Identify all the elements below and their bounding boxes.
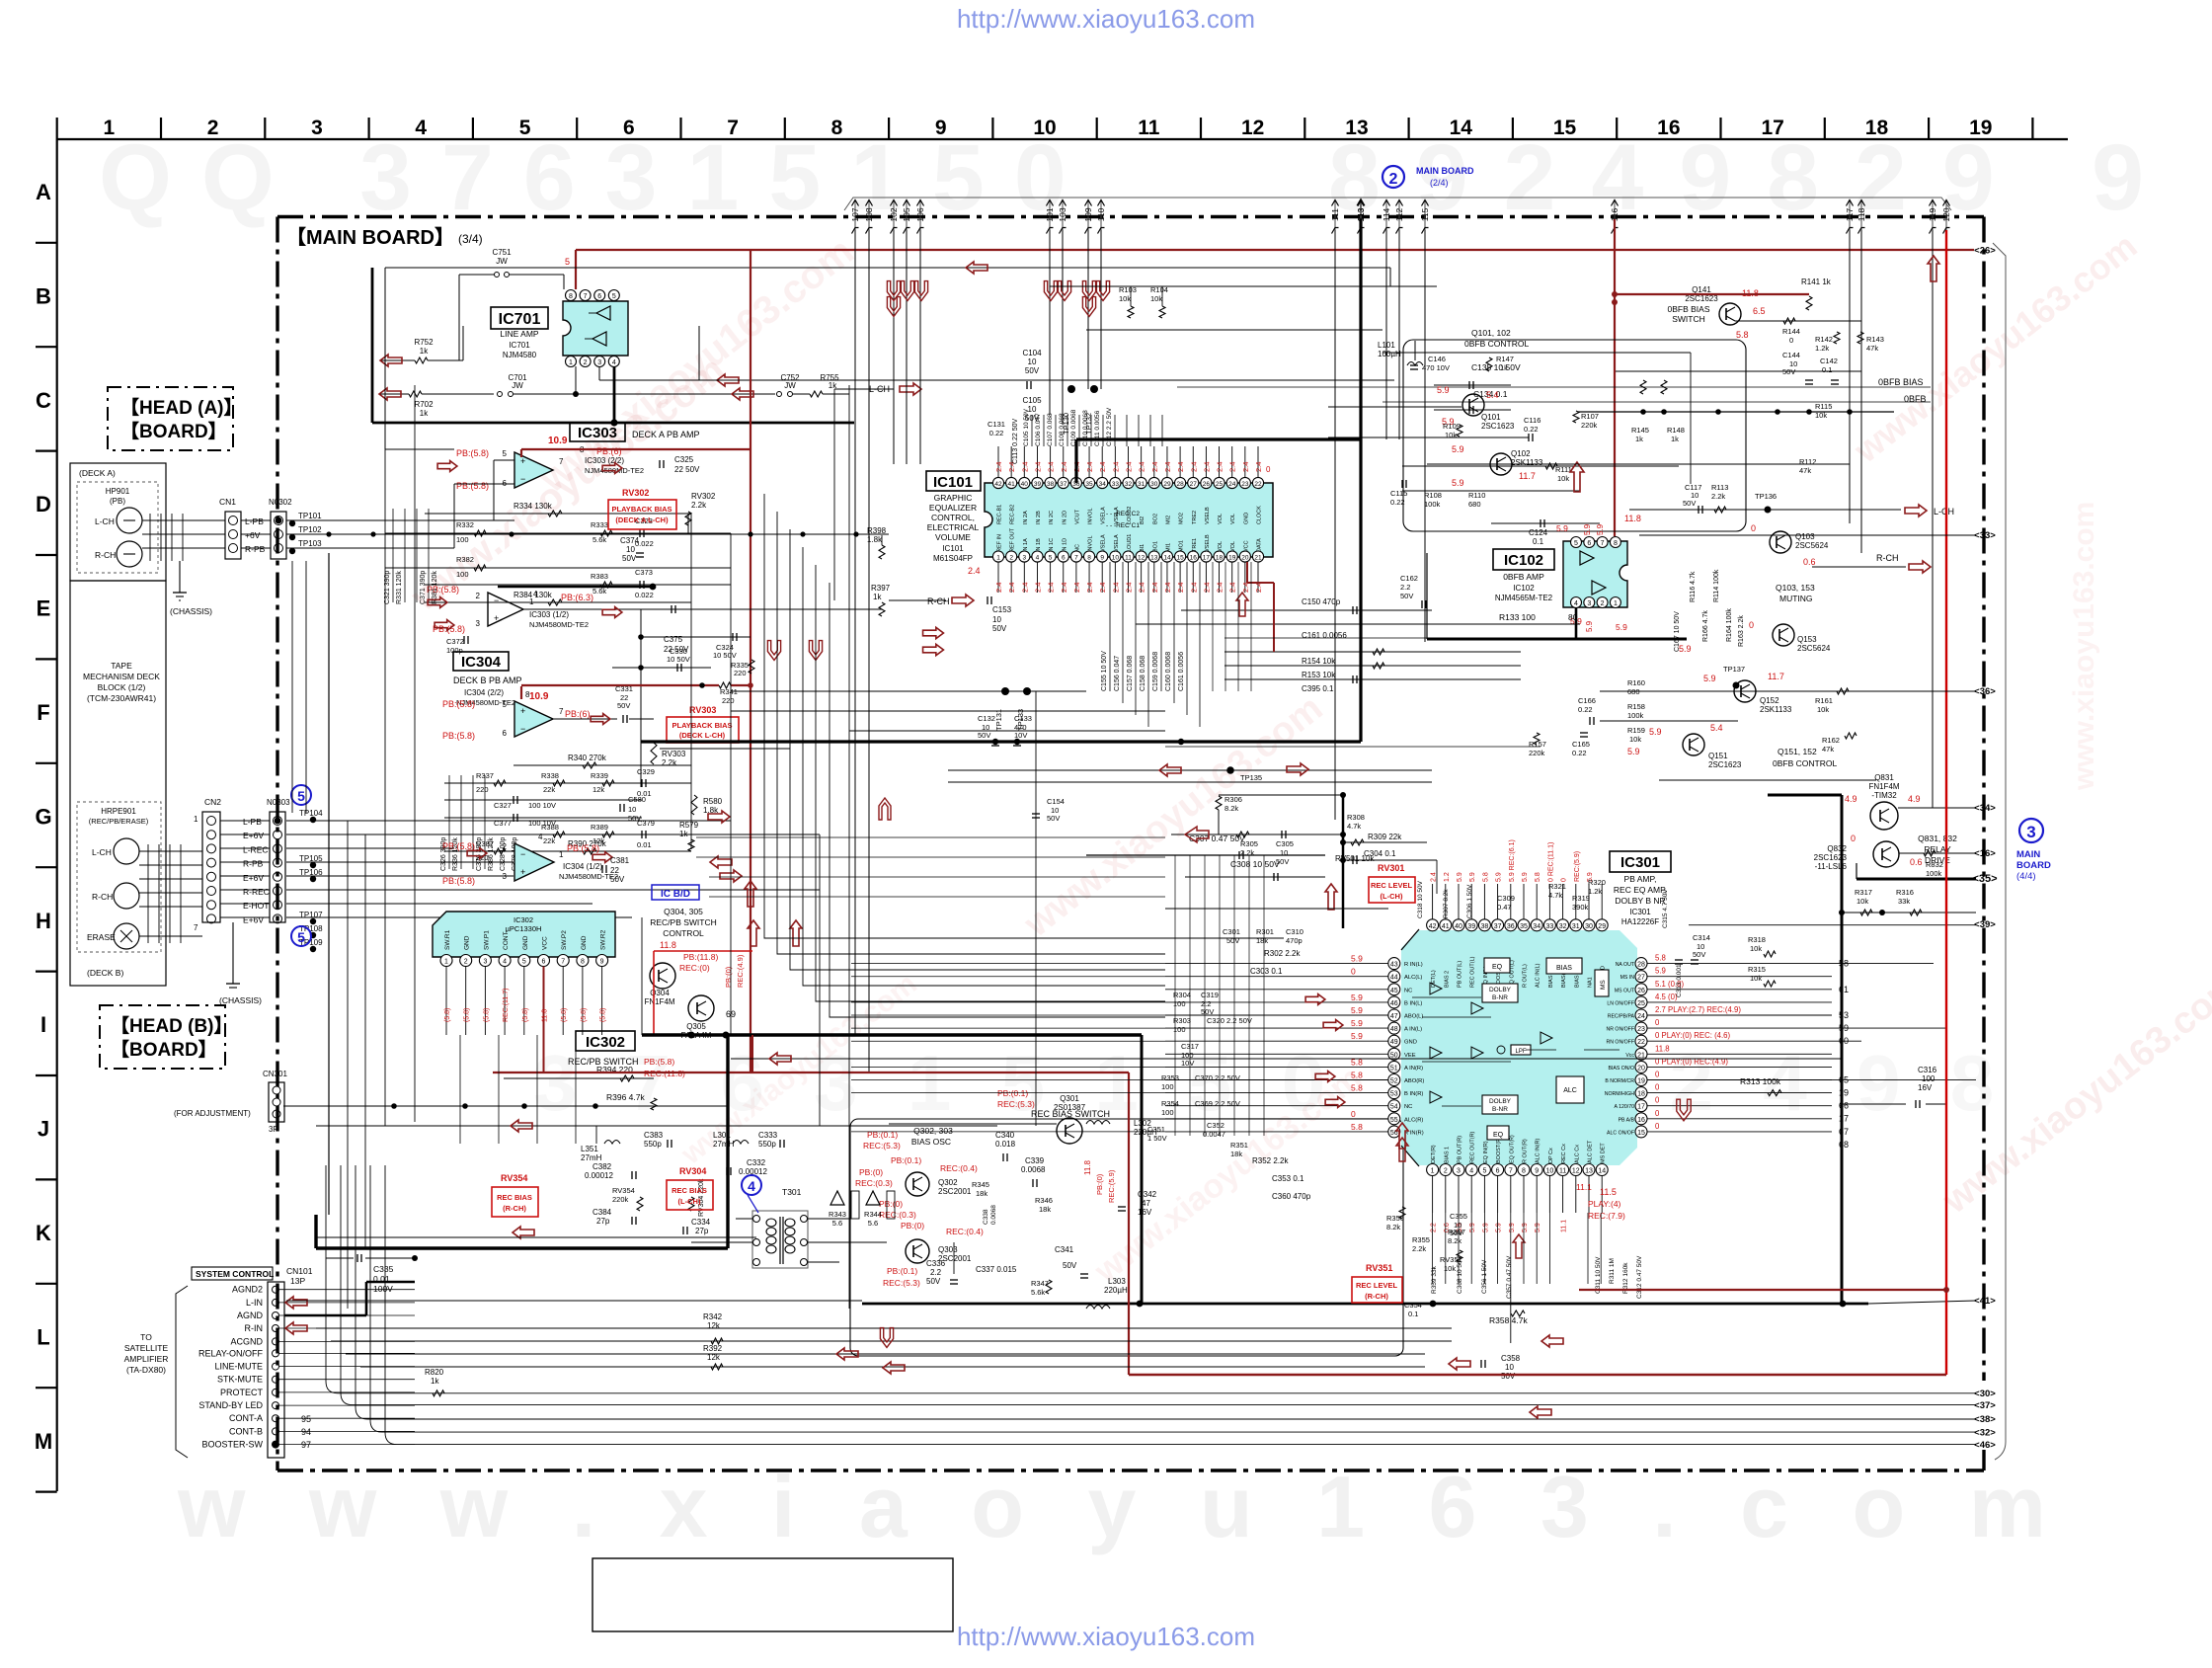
svg-text:220µH: 220µH <box>1104 1286 1128 1295</box>
svg-text:6: 6 <box>542 959 546 966</box>
svg-text:5: 5 <box>297 788 305 804</box>
svg-text:−: − <box>520 724 525 734</box>
svg-text:L-IN: L-IN <box>246 1298 263 1308</box>
svg-text:10k: 10k <box>1119 294 1131 303</box>
svg-text:1k: 1k <box>1500 363 1508 372</box>
svg-text:3: 3 <box>597 359 601 366</box>
svg-text:B: B <box>36 283 51 308</box>
svg-text:0 REC:(11.1): 0 REC:(11.1) <box>1547 842 1554 882</box>
IC301 inner BIAS box <box>1546 958 1582 974</box>
svg-text:A: A <box>36 180 51 204</box>
svg-text:1k: 1k <box>420 347 429 356</box>
svg-text:R341: R341 <box>720 687 738 696</box>
capacitor C372 <box>463 636 465 644</box>
svg-text:<30>: <30> <box>1974 1389 1996 1399</box>
svg-text:0.6: 0.6 <box>1910 857 1923 867</box>
svg-text:CONTROL: CONTROL <box>663 928 704 938</box>
svg-text:10: 10 <box>626 545 635 554</box>
IC301 inner wiring sketch <box>1412 996 1481 998</box>
svg-text:11.8: 11.8 <box>1624 514 1641 523</box>
svg-text:5.9: 5.9 <box>1496 1223 1503 1232</box>
svg-text:17: 17 <box>1637 1104 1645 1111</box>
svg-text:MS OUT: MS OUT <box>1615 988 1635 993</box>
svg-text:PB:(0.1): PB:(0.1) <box>997 1088 1028 1098</box>
svg-text:C115: C115 <box>1390 489 1407 498</box>
svg-text:IC701: IC701 <box>509 341 530 350</box>
svg-text:R-CH: R-CH <box>92 892 113 902</box>
svg-text:6.5: 6.5 <box>1753 306 1766 316</box>
IC701 pins top <box>566 290 577 301</box>
wire to connector 36 <box>1659 690 1976 692</box>
svg-text:10k: 10k <box>1629 735 1641 744</box>
svg-text:470 10V: 470 10V <box>1422 363 1450 372</box>
wire vertical 708 <box>698 326 700 380</box>
svg-text:118: 118 <box>1856 207 1866 221</box>
wire IC304 out to C331 <box>553 718 617 720</box>
svg-text:20: 20 <box>1241 555 1249 562</box>
svg-text:RV304: RV304 <box>679 1166 706 1176</box>
long rails to edge connectors <box>326 1165 1976 1393</box>
svg-text:6: 6 <box>1496 1168 1500 1175</box>
svg-text:0.022: 0.022 <box>635 591 654 599</box>
svg-text:<39>: <39> <box>1974 919 1996 930</box>
svg-text:REC-B1: REC-B1 <box>997 505 1003 524</box>
svg-text:100: 100 <box>456 535 469 544</box>
red wire vertical 1143 <box>1128 1072 1130 1375</box>
wires IC302 comb extensions <box>459 1035 461 1144</box>
svg-text:PB OUT(R): PB OUT(R) <box>1458 1136 1463 1163</box>
svg-text:3: 3 <box>311 117 323 139</box>
right connector bracket line <box>1993 243 2006 1442</box>
svg-text:18: 18 <box>1216 555 1224 562</box>
svg-text:R318: R318 <box>1748 935 1766 944</box>
svg-text:35: 35 <box>1520 923 1528 930</box>
svg-text:119: 119 <box>1928 207 1937 221</box>
long vertical wires center <box>641 917 643 1035</box>
svg-text:CONT-B: CONT-B <box>229 1426 263 1436</box>
svg-text:C372: C372 <box>446 637 464 646</box>
svg-text:C395 0.1: C395 0.1 <box>1302 684 1334 693</box>
svg-text:PB:(0): PB:(0) <box>901 1221 924 1231</box>
svg-text:RV351: RV351 <box>1366 1263 1392 1273</box>
svg-text:C340: C340 <box>995 1131 1015 1140</box>
svg-text:R145: R145 <box>1631 426 1649 435</box>
svg-text:ALC: ALC <box>1563 1087 1577 1094</box>
svg-text:5: 5 <box>503 700 508 709</box>
svg-text:50V: 50V <box>622 554 637 563</box>
svg-text:C107 0.068: C107 0.068 <box>1047 413 1054 446</box>
svg-text:C358: C358 <box>1501 1354 1521 1363</box>
svg-text:Vcc: Vcc <box>1625 1053 1634 1059</box>
svg-text:2.4: 2.4 <box>1228 583 1237 593</box>
IC101 bottom pin wires comb <box>997 562 999 593</box>
svg-text:C161 0.0056: C161 0.0056 <box>1178 652 1185 691</box>
IC IC102 label box <box>1493 549 1554 570</box>
svg-text:C135 10 50V: C135 10 50V <box>1471 362 1521 372</box>
svg-text:48: 48 <box>1390 1026 1398 1033</box>
svg-text:2.4: 2.4 <box>1241 462 1250 472</box>
svg-text:MAIN BOARD: MAIN BOARD <box>1416 166 1474 176</box>
svg-text:<32>: <32> <box>1974 1427 1996 1438</box>
svg-text:GND: GND <box>1404 1040 1417 1046</box>
svg-text:TP135: TP135 <box>1240 773 1262 782</box>
svg-text:Q141: Q141 <box>1692 285 1711 294</box>
svg-text:41: 41 <box>1008 481 1016 488</box>
svg-text:E: E <box>37 596 51 621</box>
IC302 pins 1-9 <box>440 955 452 967</box>
wires N0302 to N0303 verticals <box>291 561 293 813</box>
main board border right <box>1982 217 1985 1382</box>
svg-text:0: 0 <box>1789 336 1793 345</box>
svg-text:EQ IN(R): EQ IN(R) <box>1483 1141 1489 1163</box>
svg-text:(TCM-230AWR41): (TCM-230AWR41) <box>87 693 156 703</box>
svg-text:- - -REC C1: - - -REC C1 <box>1106 522 1140 529</box>
svg-text:BI2: BI2 <box>1140 516 1145 524</box>
svg-text:100: 100 <box>456 570 469 579</box>
svg-text:R320: R320 <box>1588 878 1606 887</box>
wire vertical 649 <box>640 609 642 787</box>
svg-text:SYSTEM CONTROL: SYSTEM CONTROL <box>196 1269 274 1279</box>
thick wire IC701 pin4 down <box>613 366 616 423</box>
svg-text:5.9: 5.9 <box>1522 872 1529 882</box>
svg-text:MS DET: MS DET <box>1601 1143 1607 1163</box>
horizontal rails left of IC301 <box>1165 908 1388 910</box>
svg-text:DOLBY B NR: DOLBY B NR <box>1615 896 1665 906</box>
svg-text:R141 1k: R141 1k <box>1801 278 1832 286</box>
svg-text:Q831: Q831 <box>1874 773 1894 782</box>
svg-text:12k: 12k <box>592 785 604 794</box>
capacitor C375 <box>671 605 672 613</box>
svg-text:R-IN: R-IN <box>245 1323 264 1333</box>
svg-text:L-CH: L-CH <box>92 847 112 857</box>
wire vertical 1049 <box>1035 691 1037 1126</box>
IC IC101 label box <box>926 471 981 491</box>
svg-text:R-CH: R-CH <box>927 596 950 606</box>
svg-text:5.9: 5.9 <box>1649 727 1662 737</box>
svg-text:11: 11 <box>1559 1168 1566 1175</box>
svg-text:(5.8): (5.8) <box>561 1008 568 1022</box>
passive rows IC304 <box>444 782 691 784</box>
svg-text:GND: GND <box>1243 513 1249 524</box>
svg-text:2SC5624: 2SC5624 <box>1795 541 1829 550</box>
svg-text:D: D <box>36 492 51 516</box>
transistor Q832 <box>1873 841 1899 867</box>
top ruler ticks <box>56 118 58 139</box>
svg-text:50V: 50V <box>1025 366 1040 375</box>
IC301 bottom pins 1-14 <box>1427 1164 1439 1176</box>
svg-text:2.4: 2.4 <box>1098 462 1107 472</box>
svg-text:2.4: 2.4 <box>1202 462 1211 472</box>
vertical caps cluster above IC101 <box>1031 415 1033 446</box>
connector N0302 on border <box>271 512 286 559</box>
op-amp IC303 (2/2) <box>514 452 553 488</box>
svg-text:C165: C165 <box>1572 740 1590 749</box>
svg-text:+: + <box>494 613 499 623</box>
svg-text:JW: JW <box>496 257 508 266</box>
svg-text:5.8: 5.8 <box>1655 954 1666 963</box>
svg-text:42: 42 <box>994 481 1002 488</box>
svg-text:2.4: 2.4 <box>968 566 981 576</box>
svg-text:13: 13 <box>1150 555 1158 562</box>
svg-text:C382: C382 <box>592 1162 612 1171</box>
svg-text:12: 12 <box>1572 1168 1580 1175</box>
svg-text:80: 80 <box>1568 612 1578 622</box>
svg-text:10 50V: 10 50V <box>667 655 690 664</box>
svg-text:32: 32 <box>1559 923 1567 930</box>
rails between IC101 area and right <box>1427 463 1850 465</box>
svg-text:7: 7 <box>559 707 564 716</box>
svg-text:C142: C142 <box>1820 357 1838 365</box>
svg-text:(L-CH): (L-CH) <box>1381 892 1403 901</box>
svg-text:TP104: TP104 <box>299 809 323 818</box>
svg-text:R382: R382 <box>456 555 474 564</box>
svg-text:【HEAD (A)】: 【HEAD (A)】 <box>120 396 243 419</box>
svg-text:12k: 12k <box>707 1321 721 1330</box>
svg-text:R-PB: R-PB <box>243 859 264 869</box>
svg-text:5: 5 <box>503 449 508 458</box>
resistor R340 270k <box>513 764 691 766</box>
svg-text:DOLBY: DOLBY <box>1489 987 1512 993</box>
svg-text:R311 1M: R311 1M <box>1609 1258 1616 1284</box>
svg-text:CONT-A: CONT-A <box>229 1413 263 1423</box>
svg-text:RV302: RV302 <box>622 488 649 498</box>
svg-text:R354: R354 <box>1161 1099 1179 1108</box>
vertical bundle left of IC301 <box>1174 855 1176 1136</box>
red arrows F row <box>1159 764 1181 776</box>
svg-text:28: 28 <box>1176 481 1184 488</box>
svg-text:IC101: IC101 <box>933 474 973 491</box>
red wire 116 down and across <box>1614 219 1616 536</box>
svg-text:GND: GND <box>522 935 529 950</box>
svg-text:TO: TO <box>140 1332 152 1342</box>
svg-text:NORM/HIGH: NORM/HIGH <box>1605 1091 1635 1097</box>
svg-text:IC B/D: IC B/D <box>661 889 690 900</box>
svg-text:TP131: TP131 <box>994 709 1003 731</box>
svg-text:117: 117 <box>1845 207 1855 221</box>
svg-text:5.9: 5.9 <box>1616 622 1627 632</box>
deck B block outline <box>70 581 166 986</box>
transistor Q153 <box>1773 624 1794 646</box>
svg-text:5.9: 5.9 <box>1351 1018 1363 1028</box>
svg-text:- - -REC C2: - - -REC C2 <box>1106 511 1140 517</box>
svg-text:BOOST(R): BOOST(R) <box>1496 1137 1502 1163</box>
svg-text:PB:(0.1): PB:(0.1) <box>867 1130 898 1140</box>
red down arrow right of Q102 <box>1570 462 1584 492</box>
svg-text:5.9: 5.9 <box>1535 1223 1541 1232</box>
svg-text:BIAS ON/O: BIAS ON/O <box>1608 1066 1634 1072</box>
svg-text:Q153: Q153 <box>1797 635 1817 644</box>
svg-text:34: 34 <box>1533 923 1540 930</box>
svg-text:22 50V: 22 50V <box>674 465 700 474</box>
svg-text:0: 0 <box>1655 1018 1660 1027</box>
svg-text:7: 7 <box>1509 1168 1513 1175</box>
wire IC701 pin1 down <box>575 366 577 394</box>
svg-text:MI2: MI2 <box>1165 516 1171 524</box>
svg-text:47k: 47k <box>1822 745 1834 754</box>
svg-text:LINE-MUTE: LINE-MUTE <box>214 1362 263 1372</box>
IC101 top pins 42-22 <box>992 477 1003 488</box>
svg-text:R114 100k: R114 100k <box>1713 569 1720 602</box>
svg-text:C751: C751 <box>492 248 512 257</box>
head R-CH (deck A) <box>117 541 142 567</box>
svg-text:0BFB CONTROL: 0BFB CONTROL <box>1464 339 1529 349</box>
vertical caps cluster below IC101 <box>1109 562 1111 691</box>
svg-text:C377: C377 <box>494 819 512 828</box>
svg-text:R160: R160 <box>1627 678 1645 687</box>
svg-text:IC102: IC102 <box>1504 552 1543 569</box>
svg-text:(REC/PB/ERASE): (REC/PB/ERASE) <box>89 817 149 826</box>
svg-text:19: 19 <box>1228 555 1236 562</box>
svg-text:44: 44 <box>1390 975 1398 982</box>
svg-text:LOUD1: LOUD1 <box>1127 534 1133 552</box>
svg-text:PB:(5.8): PB:(5.8) <box>442 699 475 709</box>
svg-text:1 50V: 1 50V <box>1147 1134 1167 1143</box>
red chevron up <box>879 798 891 820</box>
svg-text:100V: 100V <box>373 1284 393 1294</box>
svg-text:100 10V: 100 10V <box>528 801 556 810</box>
svg-text:7: 7 <box>559 457 564 466</box>
head HP901 dashed box <box>77 482 158 573</box>
svg-text:2.4: 2.4 <box>1163 462 1172 472</box>
svg-text:C329: C329 <box>637 767 655 776</box>
svg-text:3: 3 <box>1022 555 1026 562</box>
svg-text:BO1: BO1 <box>1152 541 1158 552</box>
svg-text:12: 12 <box>1241 117 1264 139</box>
svg-text:18k: 18k <box>1039 1205 1051 1214</box>
svg-text:M61S04FP: M61S04FP <box>933 554 973 563</box>
svg-text:11.5: 11.5 <box>1600 1187 1617 1197</box>
svg-text:2.4: 2.4 <box>1202 583 1211 593</box>
svg-text:R317: R317 <box>1855 888 1872 897</box>
IC301 top pins 42-29 <box>1427 919 1439 931</box>
svg-text:8.2k: 8.2k <box>1448 1236 1461 1245</box>
svg-text:PB:(0): PB:(0) <box>879 1199 903 1209</box>
svg-text:R347: R347 <box>1031 1279 1049 1288</box>
long verticals IC303 to bottom <box>690 514 692 849</box>
thick bus row F <box>641 740 1361 743</box>
svg-text:2.4: 2.4 <box>1189 462 1198 472</box>
svg-text:PB AMP,: PB AMP, <box>1624 874 1657 884</box>
svg-text:C341: C341 <box>1055 1245 1074 1254</box>
svg-text:C331: C331 <box>615 684 633 693</box>
main board border top <box>277 215 1984 218</box>
svg-text:10: 10 <box>1546 1168 1554 1175</box>
svg-text:(3/4): (3/4) <box>458 232 483 246</box>
svg-text:Q832: Q832 <box>1827 844 1847 853</box>
CN101 pin stub wires <box>279 1289 415 1291</box>
red arrows before C752 <box>717 374 739 386</box>
svg-text:(5.8): (5.8) <box>600 1008 607 1022</box>
svg-text:19: 19 <box>1969 117 1992 139</box>
svg-text:IC301: IC301 <box>1620 854 1660 871</box>
wire loop around bias osc area <box>850 1119 1403 1356</box>
svg-text:2SC1623: 2SC1623 <box>1708 760 1742 769</box>
svg-text:2.4: 2.4 <box>994 462 1003 472</box>
svg-text:R147: R147 <box>1496 355 1514 363</box>
svg-text:R579: R579 <box>679 821 699 830</box>
svg-text:K: K <box>36 1221 51 1245</box>
svg-text:R397: R397 <box>871 584 891 593</box>
svg-text:5.9: 5.9 <box>1469 872 1476 882</box>
svg-text:R398: R398 <box>867 526 887 535</box>
svg-text:8: 8 <box>569 293 573 300</box>
svg-text:0BFB AMP: 0BFB AMP <box>1503 572 1544 582</box>
svg-text:PB:(11.8): PB:(11.8) <box>683 952 718 962</box>
CN101 left bracket <box>176 1286 188 1458</box>
svg-text:R304: R304 <box>1173 991 1191 999</box>
svg-text:TP136: TP136 <box>1755 492 1777 501</box>
svg-text:50V: 50V <box>1276 857 1289 866</box>
svg-text:Q101, 102: Q101, 102 <box>1471 328 1511 338</box>
svg-text:STAND-BY LED: STAND-BY LED <box>198 1400 263 1410</box>
main board border left <box>276 217 278 1471</box>
svg-text:N0302: N0302 <box>269 498 292 507</box>
svg-text:47: 47 <box>1390 1013 1398 1020</box>
svg-text:8: 8 <box>831 117 843 139</box>
svg-text:R333: R333 <box>591 520 608 529</box>
red arrow on R702 wire <box>379 388 401 400</box>
svg-text:6: 6 <box>503 729 508 738</box>
svg-text:IC304: IC304 <box>461 654 502 671</box>
svg-text:(4/4): (4/4) <box>2016 871 2036 882</box>
svg-text:(5.8): (5.8) <box>581 1008 588 1022</box>
svg-text:BLOCK (1/2): BLOCK (1/2) <box>98 682 146 692</box>
svg-text:R107: R107 <box>1581 412 1599 421</box>
svg-text:0.00012: 0.00012 <box>585 1171 613 1180</box>
svg-text:35: 35 <box>1085 481 1093 488</box>
svg-text:【BOARD】: 【BOARD】 <box>111 1038 217 1061</box>
svg-text:CN101: CN101 <box>286 1266 313 1276</box>
red wire IC303 output loop <box>750 250 751 1072</box>
svg-text:PB:(0): PB:(0) <box>724 966 733 988</box>
svg-text:SW.R2: SW.R2 <box>600 929 607 950</box>
svg-text:MS IN: MS IN <box>1620 975 1635 981</box>
svg-text:RV302: RV302 <box>691 492 716 501</box>
svg-text:C150 470p: C150 470p <box>1302 597 1341 606</box>
svg-text:AGND2: AGND2 <box>232 1285 263 1295</box>
red arrow R-IN <box>285 1322 307 1334</box>
svg-text:−: − <box>494 596 499 605</box>
svg-text:112: 112 <box>1394 207 1404 221</box>
svg-text:2.2: 2.2 <box>1431 1223 1438 1232</box>
blue circled 5 upper <box>291 785 311 805</box>
svg-text:16: 16 <box>1657 117 1680 139</box>
red wire Q304 loop <box>654 950 752 952</box>
wires head B to CN2 <box>139 850 202 852</box>
svg-text:18k: 18k <box>1230 1150 1242 1158</box>
svg-text:14: 14 <box>1450 117 1473 139</box>
red arrow L-IN <box>285 1297 307 1309</box>
svg-text:5.9: 5.9 <box>1496 872 1503 882</box>
svg-text:R110: R110 <box>1468 491 1485 500</box>
svg-text:5.4: 5.4 <box>1486 390 1499 400</box>
svg-text:14: 14 <box>1163 555 1171 562</box>
svg-text:50V: 50V <box>628 814 641 823</box>
svg-text:IN 2B: IN 2B <box>1036 511 1042 524</box>
svg-text:DP Cx: DP Cx <box>1548 1148 1554 1163</box>
svg-text:REC:(4.9): REC:(4.9) <box>736 954 745 988</box>
svg-text:14: 14 <box>1598 1168 1606 1175</box>
svg-text:6: 6 <box>597 293 601 300</box>
svg-text:PB:(5.8): PB:(5.8) <box>456 481 489 491</box>
svg-text:VOL: VOL <box>1218 541 1224 552</box>
svg-text:4: 4 <box>503 959 507 966</box>
svg-text:TP137: TP137 <box>1723 665 1745 674</box>
thick vertical right area <box>1841 795 1844 1304</box>
svg-text:8.2k: 8.2k <box>1224 804 1238 813</box>
svg-text:IN 2D: IN 2D <box>1062 511 1067 524</box>
svg-text:2.4: 2.4 <box>1176 583 1185 593</box>
